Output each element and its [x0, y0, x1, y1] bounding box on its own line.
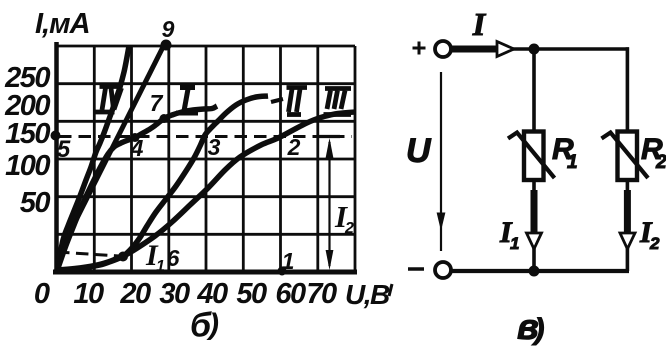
- wire right edge / R2 branch top: [626, 47, 630, 133]
- svg-text:40: 40: [196, 278, 228, 310]
- curve II: [57, 96, 268, 270]
- current arrow I: [497, 42, 514, 57]
- svg-text:6: 6: [167, 245, 180, 271]
- svg-text:4: 4: [130, 135, 144, 161]
- terminal +: [435, 41, 451, 57]
- curve I: [57, 106, 217, 271]
- curve label IV: [96, 87, 122, 113]
- curve III: [57, 112, 355, 271]
- minus sign: [408, 267, 424, 271]
- svg-text:1: 1: [282, 248, 295, 274]
- svg-text:5: 5: [57, 136, 71, 163]
- curve IV: [57, 46, 129, 270]
- node point 5: [51, 131, 61, 141]
- svg-text:10: 10: [73, 278, 104, 310]
- curve label III: [324, 89, 352, 115]
- grid horizontals: [57, 46, 355, 234]
- svg-text:2: 2: [344, 220, 354, 237]
- svg-text:1: 1: [567, 152, 578, 173]
- svg-text:2: 2: [649, 234, 660, 253]
- svg-text:100: 100: [5, 150, 50, 182]
- node top junction: [529, 44, 540, 55]
- wire R1 below: [532, 179, 536, 271]
- dashed line I=180: [59, 135, 352, 138]
- current shaft I2: [624, 190, 631, 233]
- wire R2 below: [626, 179, 630, 271]
- node point 1: [278, 267, 287, 276]
- svg-text:U: U: [406, 132, 432, 170]
- curve label I: [176, 88, 198, 114]
- svg-text:50: 50: [236, 278, 267, 310]
- svg-text:9: 9: [162, 16, 175, 42]
- I2 dimension arrow: [319, 137, 340, 271]
- x-axis: [53, 270, 357, 275]
- curve label II: [287, 88, 308, 115]
- svg-text:2: 2: [287, 134, 301, 160]
- node point 4: [131, 133, 140, 142]
- resistor R2: [618, 132, 638, 181]
- svg-text:U,В: U,В: [345, 279, 390, 310]
- svg-text:3: 3: [208, 134, 221, 160]
- svg-text:60: 60: [275, 278, 306, 310]
- wire bottom: [451, 269, 629, 273]
- svg-text:I,мА: I,мА: [35, 8, 90, 40]
- terminal -: [435, 262, 451, 278]
- construction line to point 9: [72, 44, 165, 229]
- chart text: [4, 8, 390, 345]
- wire R1 branch top: [532, 49, 536, 133]
- svg-text:20: 20: [119, 278, 151, 310]
- current arrow I2: [620, 233, 635, 249]
- svg-text:I: I: [472, 6, 487, 42]
- svg-text:70: 70: [306, 278, 337, 310]
- svg-text:7: 7: [150, 90, 164, 116]
- curve II end dash: [271, 99, 283, 102]
- wire thick I shaft: [451, 46, 497, 53]
- node point 9: [161, 40, 172, 51]
- U arrow: [440, 72, 442, 251]
- current shaft I1: [531, 190, 538, 233]
- svg-text:1: 1: [510, 234, 519, 253]
- svg-text:0: 0: [34, 278, 50, 310]
- svg-text:1: 1: [156, 258, 165, 275]
- node point 6: [118, 252, 128, 262]
- node bottom junction: [529, 266, 540, 277]
- plus sign: [413, 42, 426, 55]
- svg-text:30: 30: [159, 278, 190, 310]
- y-axis: [54, 42, 59, 274]
- wire top: [513, 47, 629, 51]
- svg-text:150: 150: [5, 118, 50, 150]
- stray mark: [389, 284, 392, 296]
- current arrow I1: [527, 233, 542, 249]
- dashed line I1=25: [57, 252, 119, 256]
- svg-text:2: 2: [655, 152, 666, 173]
- resistor R1: [524, 132, 544, 181]
- node point 7: [160, 114, 169, 123]
- grid verticals: [94, 46, 355, 272]
- svg-text:50: 50: [20, 187, 51, 219]
